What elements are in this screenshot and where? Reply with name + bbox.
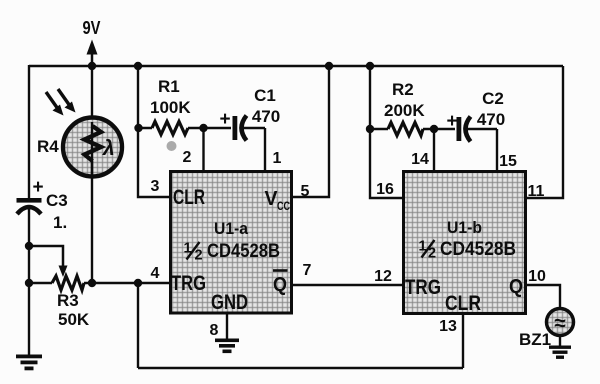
wire: pin 11 to right rail / top rail corner [526, 66, 563, 198]
resistor R1 100K [139, 77, 203, 135]
wire: pin 15 stub [496, 129, 498, 171]
svg-text:7: 7 [303, 262, 312, 279]
svg-text:CLR: CLR [445, 292, 481, 315]
svg-text:BZ1: BZ1 [519, 330, 551, 349]
wire: top 9V rail [29, 65, 563, 67]
ground (BZ1) [549, 346, 571, 359]
wire: bottom rail [138, 367, 463, 369]
wire: rail down to photocell R4 [91, 66, 93, 126]
svg-text:2: 2 [195, 248, 203, 264]
wire: pin 5 Vcc to top rail [292, 66, 329, 197]
svg-text:C3: C3 [46, 191, 68, 210]
svg-text:R3: R3 [57, 291, 79, 310]
svg-text:U1-a: U1-a [214, 220, 249, 238]
svg-text:1: 1 [273, 150, 282, 167]
svg-text:C2: C2 [482, 89, 504, 108]
svg-text:CLR: CLR [173, 186, 205, 209]
wire: left rail top segment (rail corner to C3) [28, 65, 30, 198]
svg-text:R2: R2 [392, 80, 414, 99]
svg-text:+: + [219, 109, 230, 130]
junction node: R2 right / C2 / pin 14 [430, 125, 438, 133]
svg-text:Q: Q [509, 276, 523, 298]
svg-text:470: 470 [252, 107, 280, 126]
IC U1-b 1/2 CD4528B [404, 172, 526, 316]
ground (left rail) [16, 355, 42, 371]
svg-text:16: 16 [376, 181, 394, 198]
svg-text:≈: ≈ [554, 312, 566, 335]
wire: pin 14 stub [433, 129, 435, 171]
svg-text:R4: R4 [37, 137, 59, 156]
junction node: R1 right / C1 / pin 2 [199, 124, 207, 132]
wire: pin 2 stub [202, 128, 204, 171]
wire: top rail down through R1 left to pin 3 CLR [138, 66, 170, 197]
svg-text:13: 13 [439, 318, 457, 335]
svg-text:4: 4 [151, 265, 160, 282]
svg-text:8: 8 [210, 322, 219, 339]
svg-text:CD4528B: CD4528B [440, 238, 516, 260]
capacitor C3 1uF [17, 177, 68, 232]
resistor R3 50K potentiometer [29, 246, 170, 329]
junction node: pin5 branch / top rail [325, 62, 333, 70]
svg-text:12: 12 [374, 268, 392, 285]
capacitor C1 470 [204, 86, 281, 141]
svg-text:GND: GND [211, 291, 248, 314]
svg-text:470: 470 [477, 110, 505, 129]
light arrow 1 [46, 92, 64, 116]
junction node: top rail / R1-CLR branch [134, 62, 142, 70]
svg-text:U1-b: U1-b [447, 219, 482, 237]
svg-text:200K: 200K [384, 101, 425, 120]
wire: photocell bottom down to TRG row [91, 161, 93, 283]
capacitor C2 470 [434, 89, 505, 142]
svg-text:CC: CC [277, 199, 290, 213]
svg-text:C1: C1 [254, 86, 276, 105]
power 9V supply arrow [83, 18, 101, 66]
wire: pin 8 GND stub [226, 313, 228, 340]
wire: bottom rail up to pin 13 CLR-b [462, 314, 464, 368]
svg-text:2: 2 [183, 149, 192, 166]
wire: top rail down through R2 left to pin 16 [370, 66, 403, 198]
scan smudge artifact [167, 141, 177, 151]
svg-text:TRG: TRG [171, 272, 206, 295]
svg-text:50K: 50K [58, 310, 90, 329]
junction node: top rail / R2-pin16 branch [366, 62, 374, 70]
junction node: left rail / R3 left end [25, 279, 33, 287]
ground (pin 8) [215, 339, 239, 354]
svg-text:1.: 1. [53, 213, 67, 232]
svg-text:3: 3 [151, 178, 160, 195]
svg-text:+: + [32, 177, 43, 198]
wire: TRG node down to bottom rail [137, 283, 139, 368]
svg-text:14: 14 [411, 151, 429, 168]
svg-text:9V: 9V [83, 18, 101, 38]
wire: pin 7 Qbar to pin 12 TRG-b [292, 284, 403, 286]
svg-text:Q: Q [273, 274, 287, 296]
svg-text:100K: 100K [150, 98, 191, 117]
junction node: 9V rail / R4 top [88, 62, 96, 70]
wire: left rail below C3 to ground [28, 209, 30, 356]
junction node: C3 / R3 wiper [25, 242, 33, 250]
photoresistor R4 [37, 118, 122, 177]
svg-text:λ: λ [102, 137, 115, 160]
resistor R2 200K [370, 80, 434, 136]
wire: pin 1 stub [264, 128, 266, 171]
junction node: R4 bottom / R3 right [88, 279, 96, 287]
light arrow 2 [58, 89, 76, 113]
junction node: R2 left [366, 125, 374, 133]
svg-text:+: + [446, 111, 457, 132]
svg-text:CD4528B: CD4528B [207, 240, 280, 262]
svg-text:2: 2 [428, 246, 436, 262]
junction node: R1 left [134, 124, 142, 132]
wire: pin 10 Q to buzzer [526, 285, 560, 309]
svg-text:15: 15 [499, 153, 517, 170]
svg-text:TRG: TRG [405, 276, 441, 299]
svg-text:10: 10 [528, 268, 546, 285]
junction node: TRG row / bottom rail [134, 279, 142, 287]
svg-text:R1: R1 [158, 77, 180, 96]
wire: buzzer to ground [559, 335, 561, 347]
buzzer BZ1 [519, 309, 574, 350]
op IC U1-a 1/2 CD4528B [171, 172, 292, 315]
